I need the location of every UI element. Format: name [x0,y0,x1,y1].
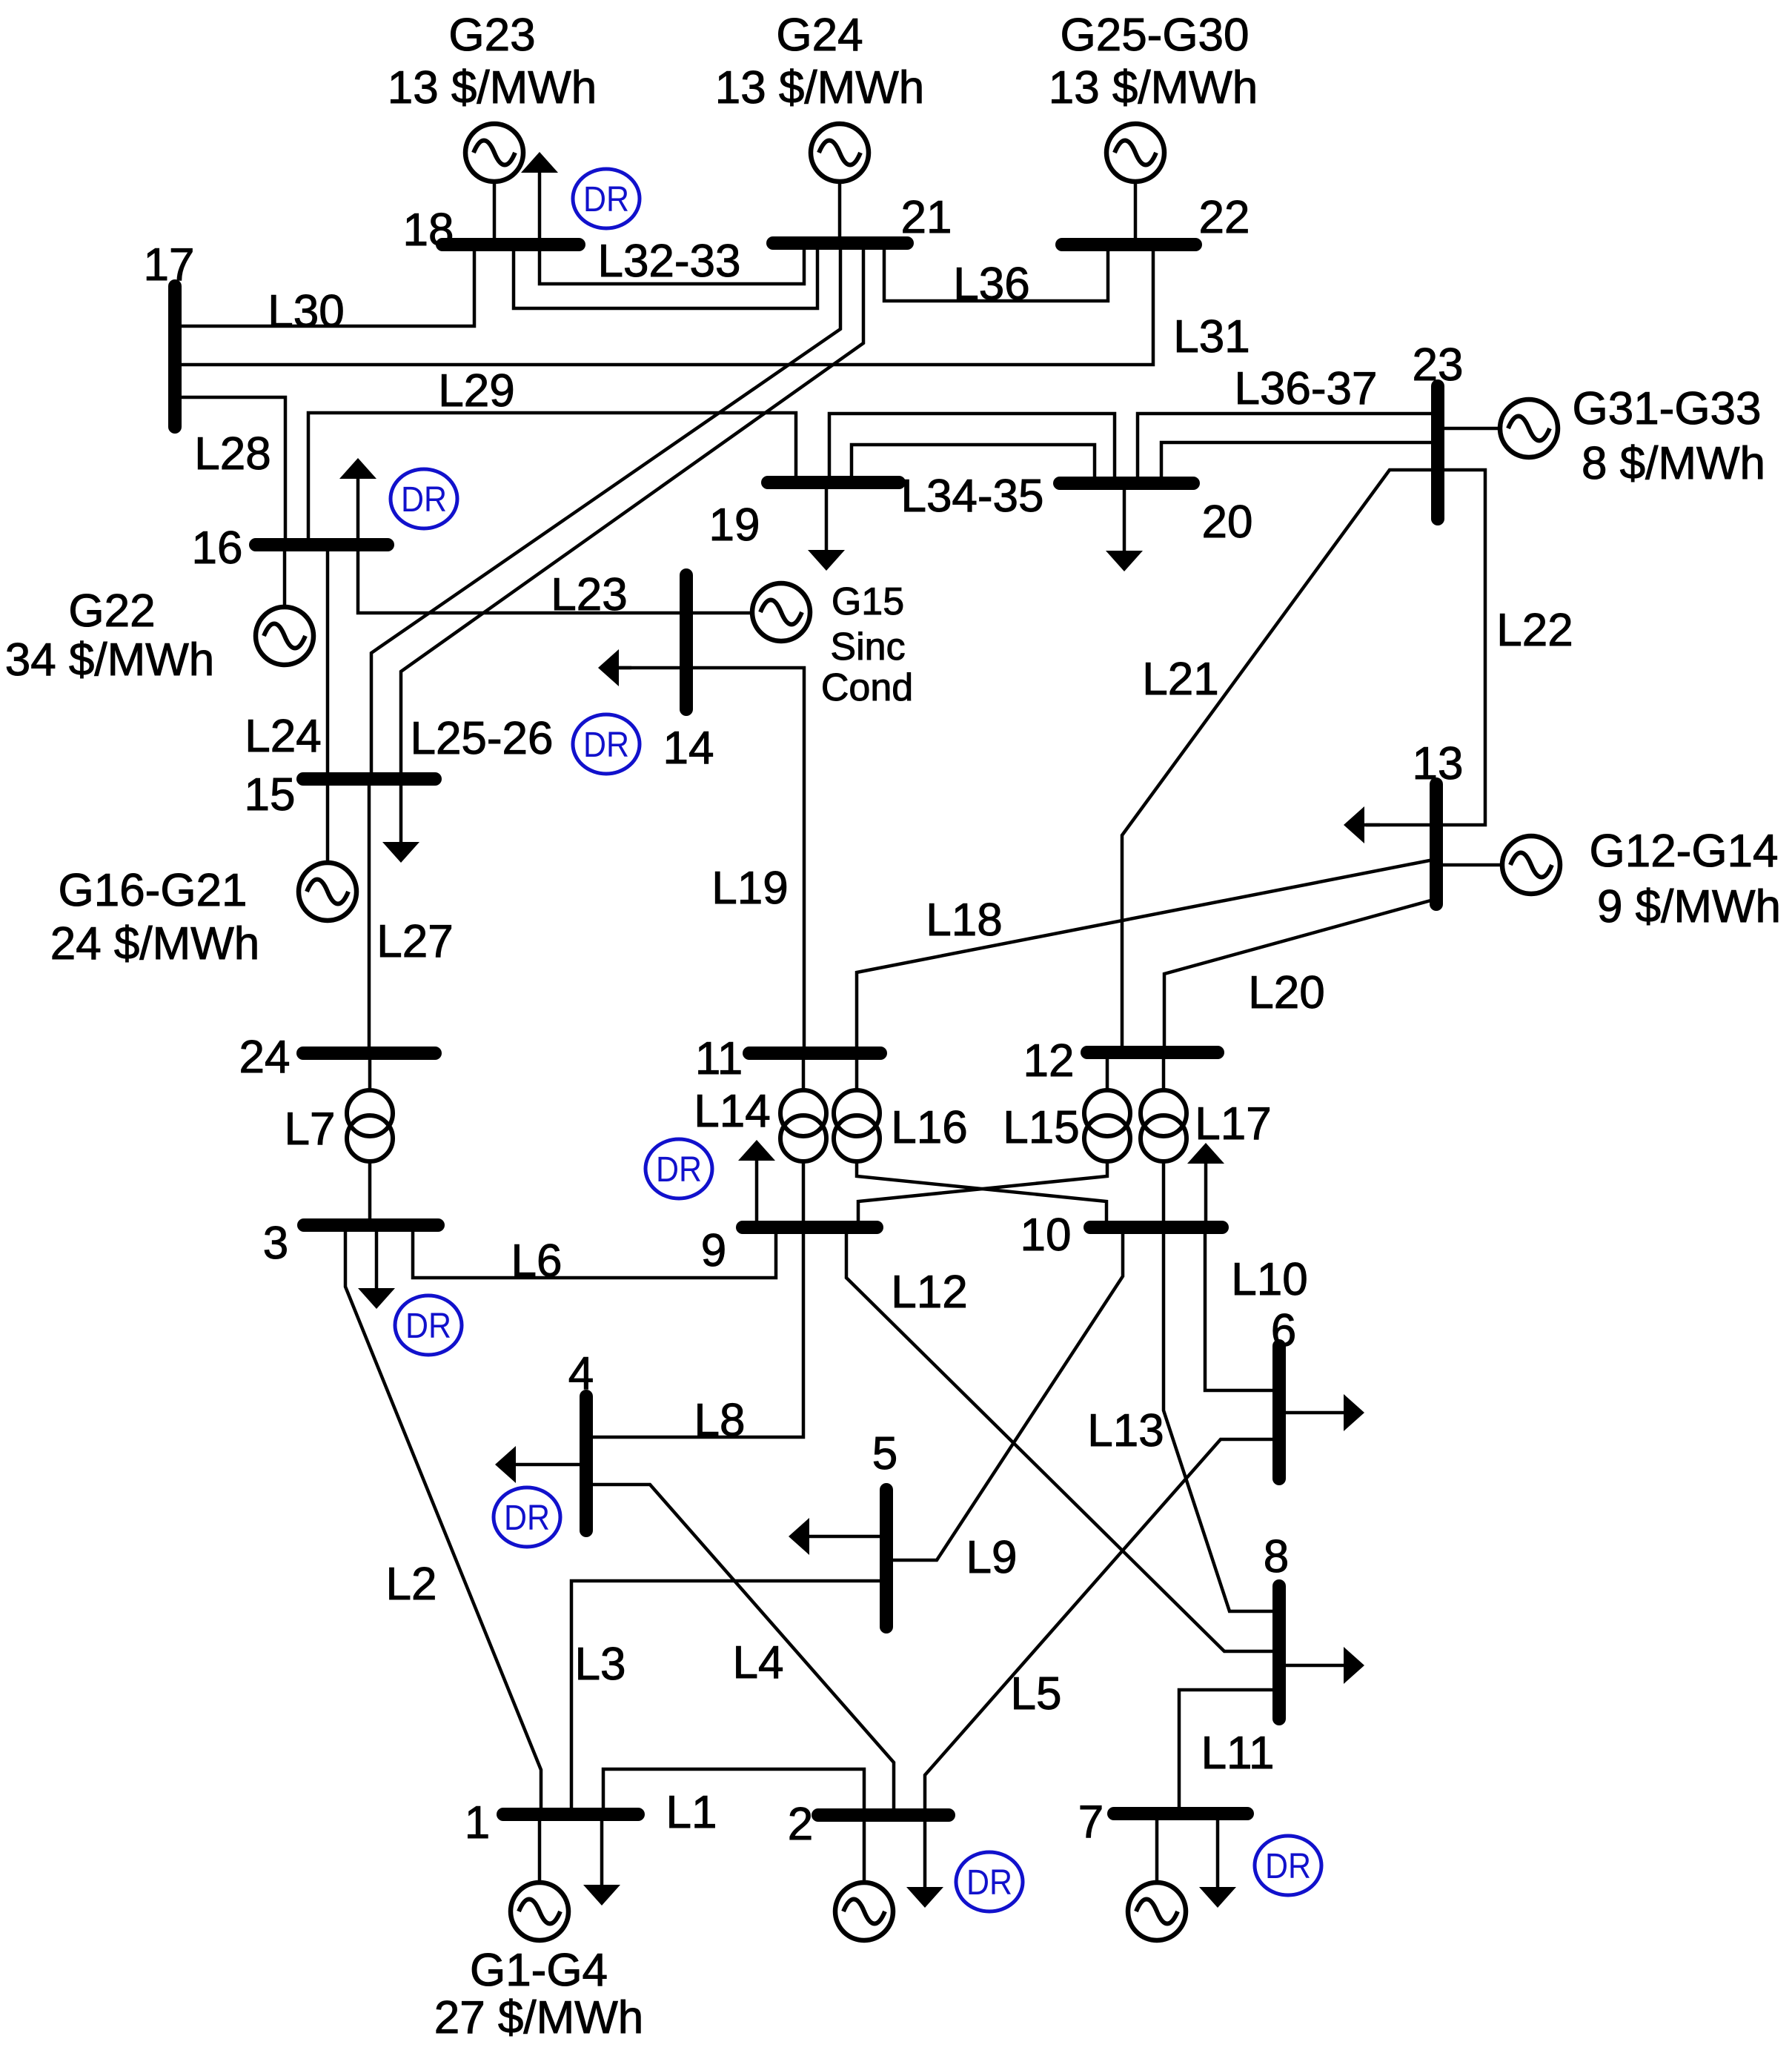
svg-text:19: 19 [709,500,760,551]
svg-text:L11: L11 [1201,1728,1275,1779]
svg-text:L20: L20 [1248,967,1324,1018]
svg-text:L36: L36 [953,259,1029,310]
svg-text:L36-37: L36-37 [1234,363,1377,414]
svg-text:L31: L31 [1173,311,1250,362]
svg-text:L23: L23 [551,569,627,620]
svg-text:DR: DR [583,726,629,765]
svg-text:L17: L17 [1195,1098,1271,1150]
svg-text:G16-G21: G16-G21 [58,865,247,916]
svg-text:23: 23 [1413,339,1464,391]
svg-text:G23: G23 [448,10,535,61]
svg-text:13 $/MWh: 13 $/MWh [715,62,925,113]
svg-text:L8: L8 [694,1395,746,1446]
svg-text:G15: G15 [832,580,904,623]
svg-text:L1: L1 [666,1787,717,1838]
svg-text:9 $/MWh: 9 $/MWh [1597,881,1781,932]
svg-text:1: 1 [465,1797,490,1848]
svg-text:13 $/MWh: 13 $/MWh [388,62,597,113]
svg-text:Sinc: Sinc [830,626,905,669]
svg-text:L21: L21 [1142,654,1218,705]
svg-text:G22: G22 [68,586,155,637]
svg-text:L2: L2 [386,1559,437,1610]
svg-text:14: 14 [663,723,714,774]
svg-text:L22: L22 [1496,605,1573,656]
svg-text:DR: DR [504,1499,550,1538]
svg-text:3: 3 [263,1218,288,1269]
svg-text:L13: L13 [1087,1405,1164,1456]
svg-text:17: 17 [144,239,195,291]
svg-text:L3: L3 [575,1639,626,1690]
svg-text:9: 9 [701,1225,726,1276]
svg-text:20: 20 [1202,497,1253,548]
svg-text:L29: L29 [438,365,514,417]
svg-text:L4: L4 [733,1637,784,1688]
svg-text:DR: DR [401,480,447,520]
svg-text:DR: DR [656,1150,702,1190]
svg-text:Cond: Cond [821,666,913,709]
svg-text:12: 12 [1023,1035,1075,1087]
svg-text:13 $/MWh: 13 $/MWh [1049,62,1258,113]
svg-text:G24: G24 [776,10,863,61]
svg-text:L25-26: L25-26 [410,713,553,764]
svg-text:L24: L24 [245,711,321,762]
svg-text:L32-33: L32-33 [597,236,740,287]
svg-text:DR: DR [583,180,629,219]
svg-text:L27: L27 [376,916,453,967]
svg-text:L34-35: L34-35 [900,471,1043,522]
svg-text:L12: L12 [891,1267,967,1318]
svg-text:8 $/MWh: 8 $/MWh [1582,438,1765,489]
svg-text:DR: DR [1265,1847,1311,1886]
svg-text:L19: L19 [711,863,788,914]
svg-text:L16: L16 [891,1102,967,1153]
svg-text:G12-G14: G12-G14 [1589,826,1778,877]
svg-text:L6: L6 [511,1236,563,1287]
svg-text:8: 8 [1264,1531,1289,1582]
svg-text:16: 16 [192,523,243,574]
svg-text:2: 2 [788,1799,813,1850]
svg-text:G25-G30: G25-G30 [1060,10,1249,61]
svg-text:22: 22 [1199,192,1250,243]
svg-text:L9: L9 [966,1532,1018,1583]
svg-text:L18: L18 [926,895,1002,946]
svg-text:24 $/MWh: 24 $/MWh [50,918,260,969]
svg-text:G1-G4: G1-G4 [470,1945,608,1996]
svg-text:34 $/MWh: 34 $/MWh [5,634,215,686]
svg-text:7: 7 [1078,1797,1104,1848]
svg-text:L28: L28 [194,428,271,480]
svg-text:15: 15 [245,769,296,820]
svg-text:27 $/MWh: 27 $/MWh [434,1992,644,2043]
svg-text:5: 5 [872,1428,897,1479]
svg-text:21: 21 [901,192,952,243]
svg-text:DR: DR [405,1307,451,1346]
svg-text:L5: L5 [1011,1668,1062,1719]
svg-text:6: 6 [1271,1305,1296,1356]
svg-text:DR: DR [966,1863,1012,1903]
svg-text:11: 11 [695,1033,743,1084]
svg-text:13: 13 [1413,738,1464,789]
svg-text:18: 18 [403,205,454,256]
svg-text:L30: L30 [268,286,344,337]
svg-text:10: 10 [1021,1210,1072,1261]
svg-text:L10: L10 [1231,1254,1307,1305]
svg-text:4: 4 [568,1348,594,1399]
svg-text:L7: L7 [285,1104,336,1155]
svg-text:L15: L15 [1003,1102,1079,1153]
svg-text:24: 24 [239,1032,291,1083]
svg-text:L14: L14 [694,1086,770,1137]
svg-text:G31-G33: G31-G33 [1572,383,1761,434]
